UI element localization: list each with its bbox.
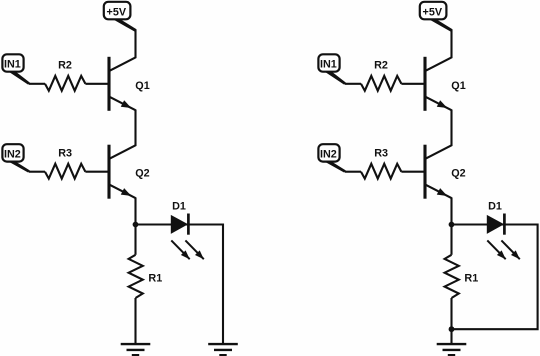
svg-text:Q1: Q1	[135, 80, 149, 92]
svg-text:R1: R1	[148, 273, 162, 285]
svg-text:Q2: Q2	[135, 167, 149, 179]
svg-text:+5V: +5V	[423, 7, 443, 19]
svg-text:+5V: +5V	[107, 7, 127, 19]
svg-text:IN1: IN1	[4, 59, 21, 71]
svg-text:R3: R3	[374, 148, 388, 160]
svg-text:R3: R3	[58, 148, 72, 160]
svg-text:R1: R1	[464, 273, 478, 285]
svg-text:R2: R2	[374, 60, 388, 72]
svg-text:R2: R2	[58, 60, 72, 72]
svg-text:IN2: IN2	[320, 149, 337, 161]
svg-text:IN2: IN2	[4, 149, 21, 161]
svg-text:Q2: Q2	[451, 167, 465, 179]
svg-text:IN1: IN1	[320, 59, 337, 71]
svg-text:D1: D1	[488, 200, 502, 212]
svg-text:D1: D1	[172, 200, 186, 212]
svg-text:Q1: Q1	[451, 80, 465, 92]
